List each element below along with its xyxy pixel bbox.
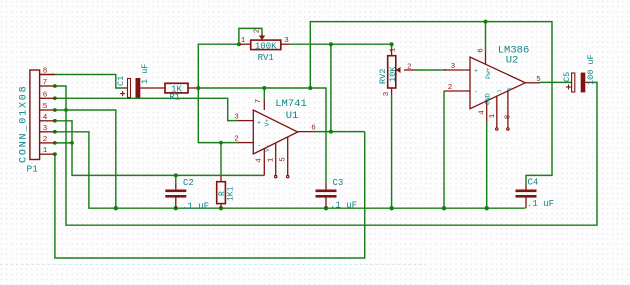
svg-text:V+: V+ [264,119,271,127]
svg-text:4: 4 [479,110,487,115]
svg-text:RV2: RV2 [378,69,388,84]
svg-text:8: 8 [505,115,513,120]
svg-text:1: 1 [241,37,246,45]
svg-text:8: 8 [507,87,513,90]
svg-text:+: + [474,68,478,75]
svg-text:8: 8 [43,68,48,76]
svg-text:6: 6 [478,48,486,53]
svg-text:C4: C4 [528,178,539,188]
svg-text:1: 1 [43,147,48,155]
svg-text:10K: 10K [388,66,398,82]
svg-text:3: 3 [383,91,391,96]
svg-text:U2: U2 [506,55,519,67]
svg-text:1: 1 [390,47,398,52]
svg-text:C3: C3 [333,178,344,188]
svg-text:C5: C5 [562,72,572,82]
svg-text:.1 uF: .1 uF [527,199,554,209]
svg-text:C1: C1 [116,76,126,86]
svg-text:3: 3 [284,37,289,45]
svg-text:5: 5 [43,103,48,111]
svg-text:+: + [257,119,261,126]
svg-text:V-: V- [264,144,271,152]
svg-text:100K: 100K [255,41,277,51]
svg-text:1: 1 [497,89,503,92]
svg-text:5: 5 [280,157,288,162]
svg-text:CONN_01X08: CONN_01X08 [19,84,30,163]
svg-text:2: 2 [234,136,239,144]
svg-text:1: 1 [489,113,497,118]
svg-text:1 uF: 1 uF [140,64,150,84]
svg-text:4: 4 [256,158,264,163]
svg-text:.1 uF: .1 uF [330,201,357,211]
svg-text:3: 3 [43,125,48,133]
svg-text:3: 3 [451,63,456,71]
svg-text:-: - [474,89,478,96]
svg-text:100 uF: 100 uF [586,54,596,85]
svg-text:GND: GND [485,93,492,105]
svg-text:2: 2 [43,136,48,144]
svg-text:P1: P1 [27,164,39,175]
svg-text:7: 7 [43,79,48,87]
svg-text:R1: R1 [169,93,180,103]
svg-text:6: 6 [311,125,316,133]
svg-text:2: 2 [448,84,453,92]
svg-text:Pw+: Pw+ [485,67,492,79]
svg-text:2: 2 [407,64,412,72]
svg-text:7: 7 [255,99,263,104]
svg-text:U1: U1 [286,110,299,122]
svg-text:5: 5 [536,76,541,84]
svg-text:C2: C2 [183,178,194,188]
svg-text:LM741: LM741 [275,98,307,110]
svg-text:4: 4 [43,114,48,122]
svg-text:6: 6 [43,92,48,100]
svg-text:RV1: RV1 [258,53,274,63]
svg-text:1K1: 1K1 [227,186,236,201]
svg-text:1: 1 [268,157,276,162]
svg-text:.1 uF: .1 uF [182,202,209,212]
svg-text:3: 3 [234,113,239,121]
svg-text:-: - [257,142,261,149]
svg-text:2: 2 [254,29,262,34]
